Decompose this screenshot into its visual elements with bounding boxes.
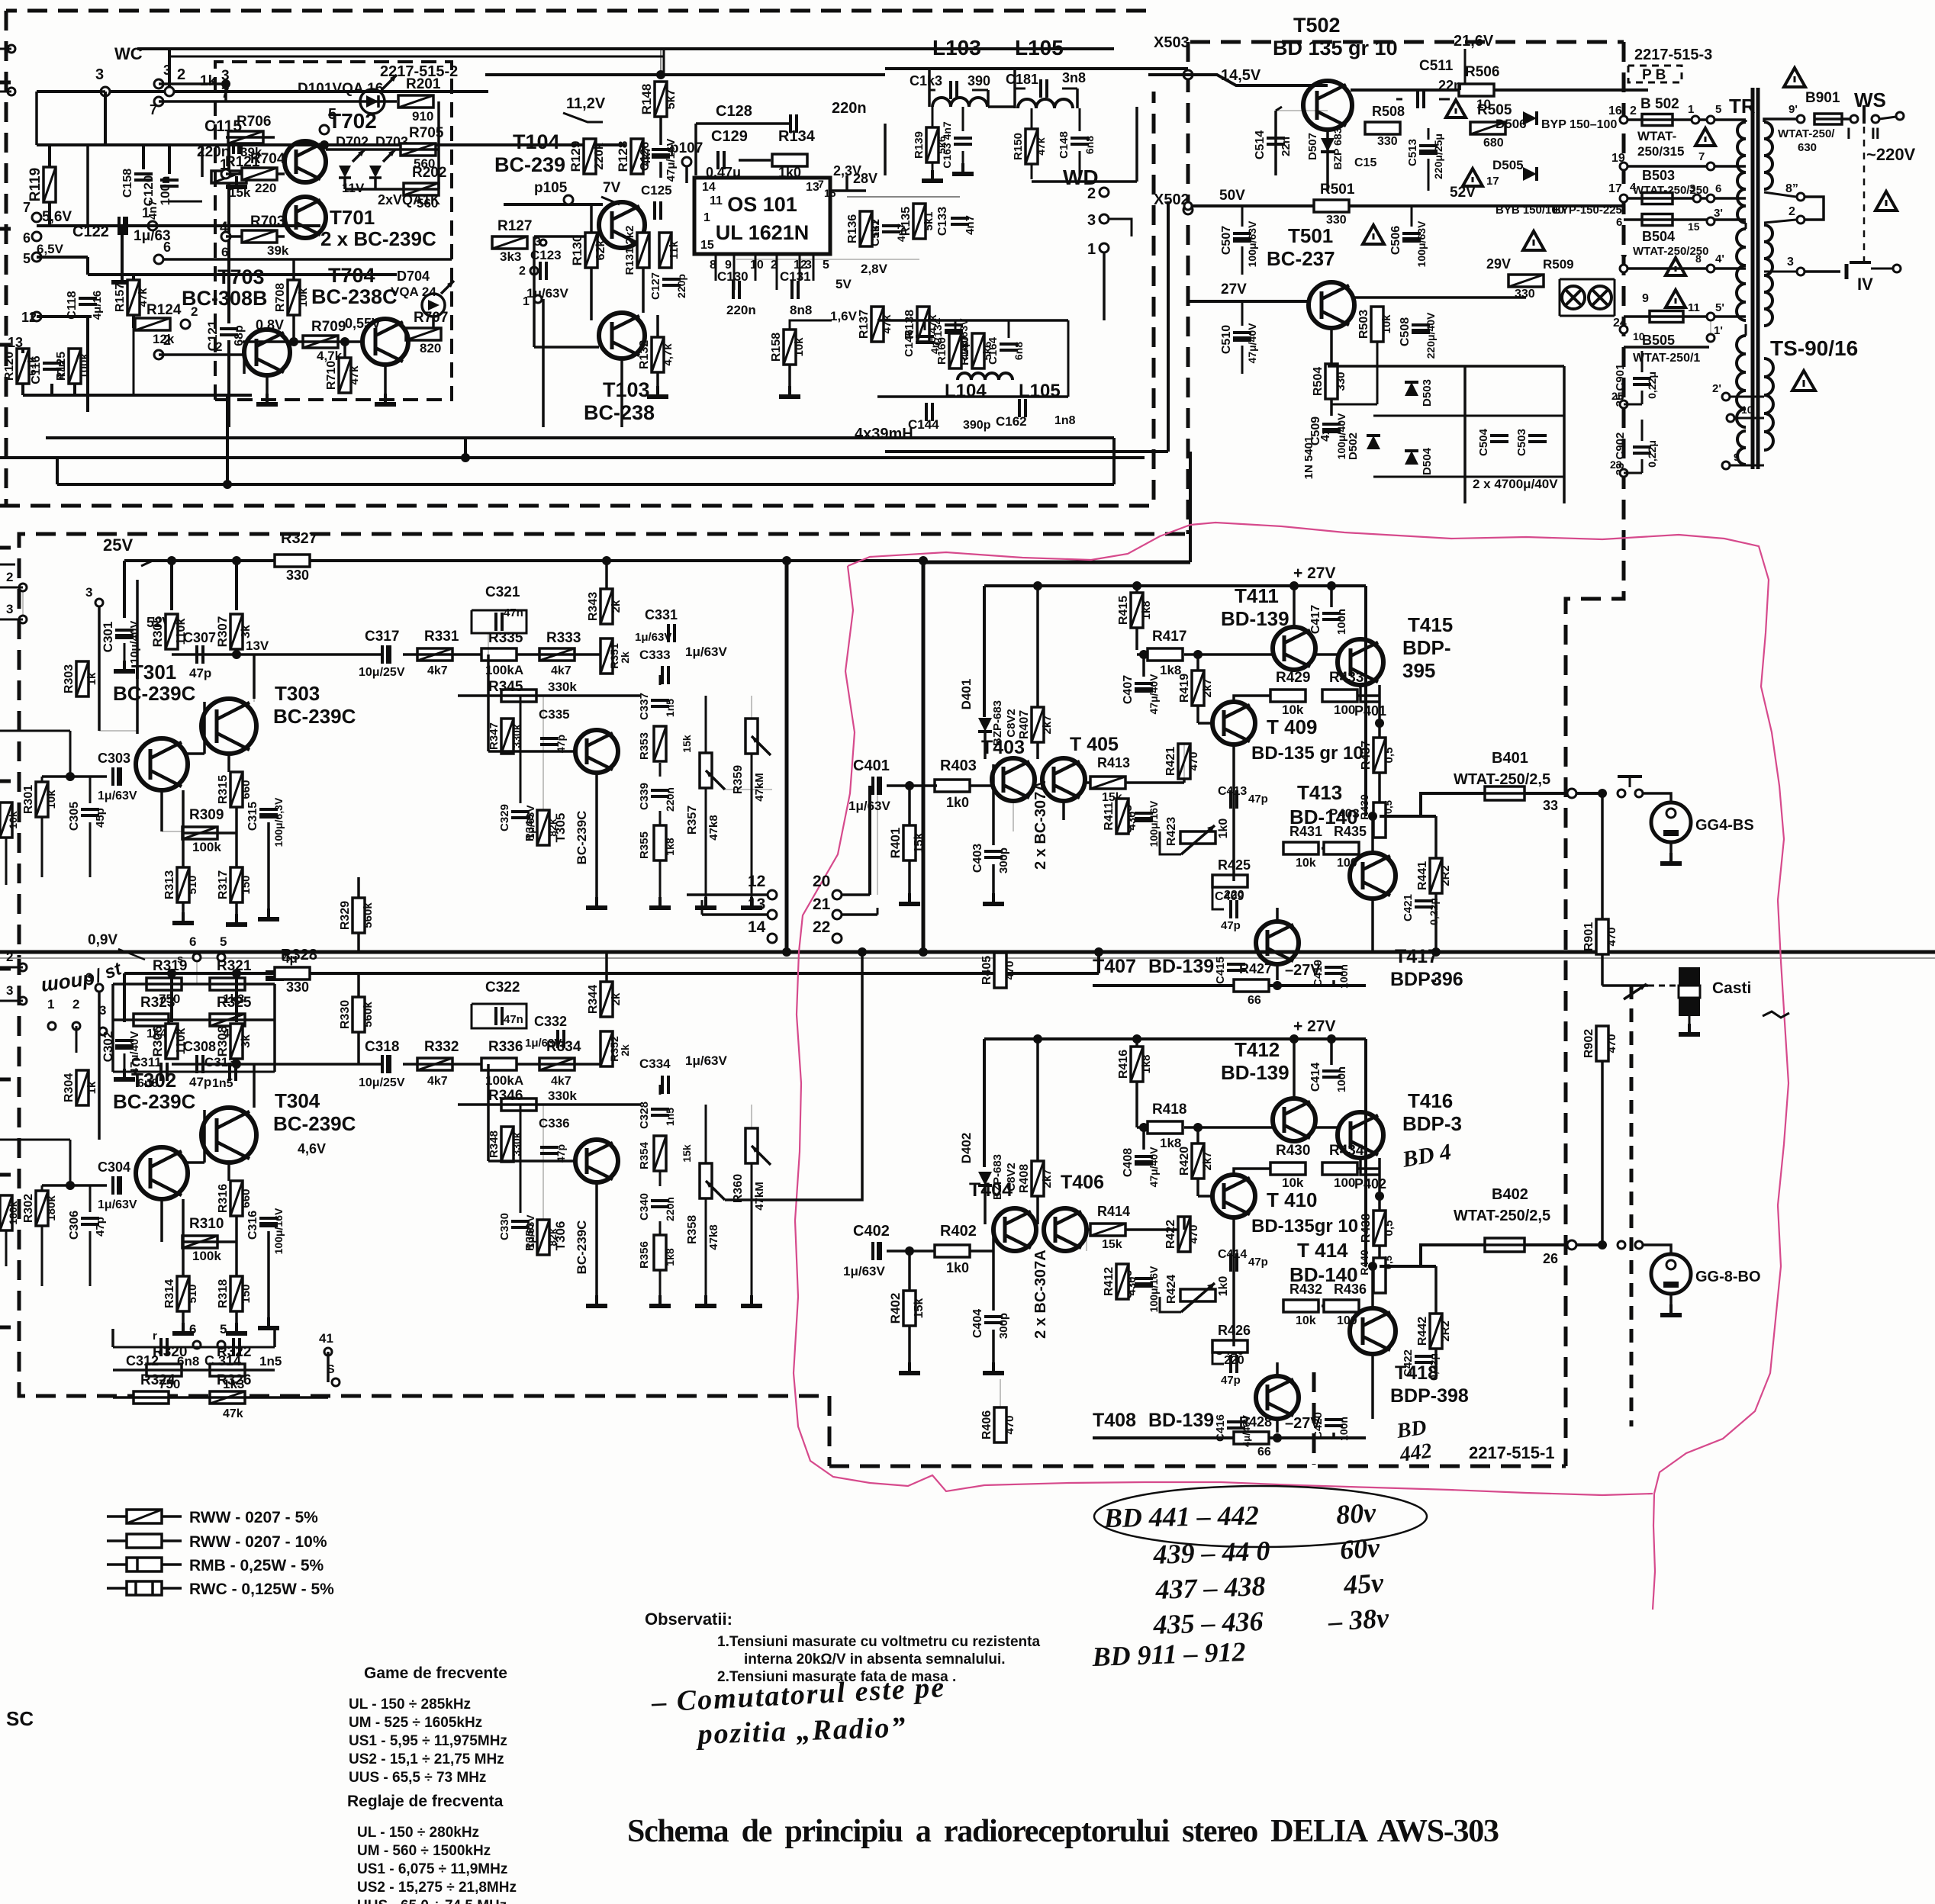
svg-text:T702: T702 [328, 109, 377, 133]
svg-text:100μ/63V: 100μ/63V [1246, 220, 1258, 267]
svg-text:R708: R708 [274, 283, 287, 312]
svg-text:10k: 10k [1296, 857, 1316, 870]
svg-text:1k8: 1k8 [1140, 1054, 1153, 1073]
svg-text:3: 3 [221, 68, 230, 84]
svg-text:C334: C334 [639, 1057, 671, 1071]
svg-text:10k: 10k [7, 811, 19, 829]
resistor R405 470 vertical [994, 953, 1006, 988]
capacitor C315 100u/6.3V [259, 809, 278, 819]
resistor R137 47k vertical [871, 307, 884, 342]
resistor R305 110k vertical [166, 614, 178, 649]
svg-text:R704: R704 [250, 151, 285, 167]
capacitor C311 6n8 [161, 1063, 167, 1081]
svg-text:R402: R402 [888, 1293, 903, 1324]
svg-text:C510: C510 [1220, 325, 1233, 354]
svg-text:8: 8 [1695, 252, 1702, 265]
resistor R349 82k vertical [537, 810, 549, 845]
node p107 [682, 157, 691, 166]
wire filter top rail [885, 67, 1188, 70]
svg-text:220n: 220n [832, 100, 867, 117]
svg-text:10μ/25V: 10μ/25V [359, 666, 405, 679]
wire bridge cluster [1328, 365, 1564, 368]
svg-text:US1 - 5,95 ÷ 11,975MHz: US1 - 5,95 ÷ 11,975MHz [349, 1733, 507, 1749]
svg-text:C504: C504 [1477, 428, 1490, 456]
svg-text:P402: P402 [1354, 1176, 1386, 1192]
svg-text:D702: D702 [336, 134, 369, 150]
svg-text:IV: IV [1857, 275, 1873, 294]
svg-text:T303: T303 [275, 682, 320, 705]
svg-text:9: 9 [1734, 451, 1740, 463]
svg-text:r: r [153, 1330, 157, 1343]
svg-text:390: 390 [967, 73, 990, 88]
svg-text:R120: R120 [3, 352, 16, 381]
capacitor C126 47u/16V [652, 150, 670, 159]
transistor T301 [136, 738, 188, 790]
svg-text:C332: C332 [534, 1014, 567, 1029]
svg-text:R327: R327 [281, 530, 317, 547]
resistor R509 330 [1508, 275, 1544, 287]
transistor T704 [362, 319, 408, 365]
svg-text:66: 66 [1257, 1446, 1271, 1459]
svg-text:45v: 45v [1342, 1567, 1386, 1600]
svg-text:R150: R150 [1012, 133, 1025, 160]
svg-text:Game de frecvente: Game de frecvente [364, 1664, 507, 1682]
svg-text:C414: C414 [1309, 1063, 1322, 1092]
svg-text:R421: R421 [1164, 747, 1177, 776]
svg-text:US1 - 6,075 ÷ 11,9MHz: US1 - 6,075 ÷ 11,9MHz [357, 1861, 507, 1877]
resistor R308 3k vertical [230, 1024, 243, 1059]
resistor R704 220 [242, 168, 277, 180]
transistor T703 [244, 330, 290, 375]
svg-text:14: 14 [748, 918, 766, 936]
resistor R316 660 vertical [230, 1181, 243, 1216]
frame dashed box power amp section 2217-515-1 [829, 1465, 1566, 1468]
capacitor C404 300p [984, 1317, 1003, 1323]
svg-text:D502: D502 [1347, 433, 1360, 460]
svg-text:5: 5 [23, 251, 31, 266]
wire lower filter mesh [877, 319, 1068, 322]
svg-text:52V: 52V [1450, 185, 1476, 201]
svg-text:220k: 220k [593, 143, 606, 170]
potentiometer R360 47kM [745, 1128, 758, 1163]
svg-text:2: 2 [1087, 185, 1096, 202]
svg-text:R125: R125 [55, 352, 68, 381]
svg-text:BD: BD [1395, 1416, 1428, 1443]
svg-text:R344: R344 [587, 985, 600, 1014]
potentiometer R358 47k8 [700, 1163, 712, 1198]
resistor R706 39k [228, 131, 263, 143]
svg-text:C146: C146 [903, 330, 916, 357]
svg-text:TS-90/16: TS-90/16 [1770, 336, 1858, 360]
transformer primary winding group 4 [1737, 431, 1746, 465]
svg-text:C414: C414 [1218, 1248, 1247, 1261]
svg-text:R401: R401 [888, 828, 903, 859]
svg-text:Observatii:: Observatii: [645, 1610, 732, 1629]
wire T302-T304 base link [187, 1161, 204, 1164]
svg-text:T413: T413 [1297, 781, 1342, 804]
svg-text:R201: R201 [406, 76, 441, 92]
transistor T413 [1350, 853, 1396, 899]
svg-text:220n: 220n [726, 303, 756, 317]
svg-text:330k: 330k [548, 680, 577, 694]
svg-text:7: 7 [818, 178, 824, 190]
svg-text:3k: 3k [240, 625, 253, 638]
svg-text:396: 396 [1431, 969, 1463, 990]
svg-text:R303: R303 [63, 664, 76, 693]
node pin 1 R704 [221, 169, 230, 178]
svg-text:1μ/63V: 1μ/63V [685, 1053, 727, 1068]
transistor T409 [1212, 702, 1255, 745]
resistor R307 3k vertical [230, 614, 243, 649]
svg-text:D505: D505 [1492, 158, 1524, 172]
svg-text:D401: D401 [959, 679, 974, 710]
warning triangle B504 [1666, 258, 1685, 275]
svg-text:R437: R437 [1360, 741, 1373, 770]
svg-text:C125: C125 [641, 183, 672, 198]
svg-text:2k7: 2k7 [1201, 678, 1214, 697]
transistor T104 [599, 202, 645, 248]
svg-text:C126: C126 [639, 142, 652, 171]
resistor R407 2k7 vertical [1032, 707, 1044, 742]
svg-text:5V: 5V [835, 277, 852, 291]
svg-text:R335: R335 [488, 630, 523, 646]
svg-text:R403: R403 [940, 757, 977, 774]
svg-text:2 x BC-307A: 2 x BC-307A [1032, 780, 1049, 870]
svg-text:560: 560 [417, 196, 438, 211]
svg-text:BC-238: BC-238 [584, 401, 655, 424]
warning triangle power 1 [1446, 100, 1466, 117]
svg-text:~220V: ~220V [1866, 145, 1916, 164]
svg-text:47p: 47p [189, 1075, 211, 1089]
capacitor C308 47p [197, 1055, 203, 1073]
svg-text:R415: R415 [1117, 596, 1130, 625]
connector pin 3 mid [95, 599, 103, 606]
node pin 4 R703 [221, 232, 230, 241]
transistor T103 [599, 313, 645, 359]
resistor R313 510 vertical [177, 867, 189, 902]
svg-text:C407: C407 [1122, 675, 1135, 704]
ground T703 T704 [266, 375, 269, 398]
node pin 13 [18, 349, 27, 358]
svg-text:R508: R508 [1372, 104, 1405, 119]
svg-text:47kM: 47kM [753, 1182, 766, 1211]
frame small dashed box PB [1628, 66, 1682, 82]
svg-text:435 – 436: 435 – 436 [1152, 1606, 1264, 1640]
capacitor C414 100n [1322, 1071, 1341, 1077]
svg-text:R902: R902 [1582, 1029, 1595, 1058]
capacitor C306 47p [81, 1218, 99, 1224]
handwritten oval around BD 441-442 row [1094, 1486, 1427, 1547]
svg-text:25: 25 [1611, 390, 1624, 402]
svg-text:C328: C328 [638, 1102, 651, 1129]
svg-text:630: 630 [1798, 141, 1817, 154]
resistor R343 2k vertical [600, 589, 613, 624]
svg-text:7: 7 [23, 200, 31, 215]
svg-text:R414: R414 [1097, 1204, 1130, 1219]
connector speaker output lower GG-8-BO [1651, 1254, 1691, 1294]
svg-text:R901: R901 [1582, 922, 1595, 951]
svg-text:R431: R431 [1289, 824, 1322, 839]
svg-text:4μ/40V: 4μ/40V [1241, 1415, 1252, 1447]
warning triangle 220V [1875, 191, 1897, 211]
capacitor C164 6n8 [1000, 344, 1018, 350]
svg-text:R127: R127 [497, 218, 532, 234]
resistor R201 edge fragment [0, 802, 12, 838]
svg-text:100kA: 100kA [485, 1073, 523, 1088]
svg-text:100μ/63V: 100μ/63V [1415, 220, 1428, 267]
wire box bottom rail [164, 258, 452, 261]
wire pin20 to C401 [868, 786, 871, 895]
resistor R335 100kA [481, 648, 517, 661]
svg-text:R442: R442 [1416, 1317, 1429, 1346]
svg-text:2k7: 2k7 [1041, 1169, 1054, 1188]
svg-text:R505: R505 [1477, 102, 1512, 118]
svg-text:2: 2 [6, 950, 13, 964]
resistor R127 3k3 [492, 236, 527, 249]
transistor T411 [1273, 627, 1315, 670]
svg-text:3: 3 [6, 983, 13, 998]
svg-text:12: 12 [748, 873, 765, 890]
svg-text:D704: D704 [397, 269, 430, 284]
svg-text:Schema de principiu a radiorec: Schema de principiu a radioreceptorului … [627, 1814, 1499, 1849]
svg-text:8”: 8” [1785, 182, 1798, 195]
svg-text:R314: R314 [163, 1279, 176, 1308]
wire decoder T301 emitter stub [160, 790, 163, 831]
svg-text:80v: 80v [1335, 1497, 1378, 1530]
resistor R441 2R2 vertical [1430, 858, 1442, 893]
lamp indicator 1 [1562, 286, 1585, 309]
svg-text:2: 2 [177, 66, 185, 83]
wire filter mesh [932, 107, 934, 127]
svg-text:C130: C130 [717, 269, 749, 284]
svg-text:660: 660 [240, 1188, 253, 1208]
svg-text:6: 6 [1616, 216, 1622, 229]
svg-text:39k: 39k [267, 243, 289, 258]
resistor R414 15k [1090, 1224, 1125, 1236]
svg-text:0,5: 0,5 [1383, 748, 1396, 764]
svg-text:C404: C404 [971, 1309, 984, 1338]
resistor R317 150 vertical [230, 867, 243, 902]
resistor R442 2R2 vertical [1430, 1314, 1442, 1349]
svg-text:47μ/40V: 47μ/40V [128, 1031, 141, 1075]
transistor T702 [285, 141, 326, 182]
resistor R333 4k7 [539, 648, 575, 661]
svg-text:6: 6 [163, 240, 171, 255]
svg-text:C318: C318 [365, 1039, 399, 1055]
svg-text:C301: C301 [101, 622, 115, 653]
svg-text:220n: 220n [664, 1197, 676, 1221]
svg-text:C308: C308 [183, 1039, 216, 1054]
wire IC bottom connections [715, 254, 717, 281]
transistor T501 [1309, 282, 1354, 328]
svg-text:X503: X503 [1154, 34, 1190, 51]
svg-text:C162: C162 [996, 414, 1027, 429]
resistor R332 4k7 [417, 1058, 452, 1070]
svg-text:R336: R336 [488, 1039, 523, 1055]
resistor R323 [134, 1014, 169, 1026]
resistor R132 4.7k vertical [652, 337, 664, 372]
svg-text:4k7: 4k7 [427, 664, 448, 677]
wire emitter links lower [182, 1199, 185, 1276]
resistor R121 15k [211, 171, 246, 183]
capacitor C337 1n5 [651, 700, 669, 706]
svg-text:R305: R305 [150, 616, 165, 648]
wire right of IC [845, 175, 848, 191]
svg-text:15k: 15k [913, 833, 926, 854]
svg-text:220: 220 [255, 181, 276, 195]
svg-text:2: 2 [1789, 205, 1795, 218]
resistor R422 470 vertical [1178, 1217, 1190, 1252]
svg-text:0,5: 0,5 [1383, 800, 1394, 814]
svg-text:3: 3 [163, 63, 171, 78]
capacitor C313 1n5 [230, 1063, 236, 1081]
svg-text:R349: R349 [523, 814, 536, 841]
svg-text:6: 6 [189, 1322, 196, 1336]
resistor R440 0.5 vertical [1373, 1258, 1386, 1293]
svg-text:15k: 15k [681, 735, 693, 753]
capacitor C144 390p [926, 403, 932, 421]
resistor R902 470 vertical [1596, 1026, 1608, 1061]
resistor R416 1k8 vertical [1131, 1047, 1143, 1082]
svg-text:470: 470 [1003, 1415, 1016, 1434]
wire secondary top to B901 [1764, 119, 1796, 122]
svg-text:1n5: 1n5 [259, 1354, 282, 1368]
wire T415 emitter to R437 [1360, 685, 1380, 702]
svg-text:47n: 47n [504, 606, 523, 619]
svg-text:17: 17 [1608, 182, 1622, 195]
svg-text:R503: R503 [1357, 310, 1370, 339]
svg-text:T412: T412 [1235, 1038, 1280, 1061]
wire R428 junction [1273, 1433, 1282, 1442]
wire T410 emitter column [1232, 1217, 1235, 1346]
wire 5,6V C122 [37, 224, 320, 227]
svg-text:9: 9 [1642, 292, 1649, 305]
svg-text:T103: T103 [603, 378, 650, 401]
svg-text:US2 - 15,275 ÷ 21,8MHz: US2 - 15,275 ÷ 21,8MHz [357, 1880, 517, 1896]
svg-text:1: 1 [523, 295, 530, 308]
svg-text:T406: T406 [1061, 1172, 1104, 1193]
svg-text:220: 220 [1224, 1354, 1244, 1367]
warning triangle lamps [1666, 290, 1685, 307]
svg-text:C307: C307 [183, 630, 216, 645]
svg-text:R332: R332 [424, 1039, 459, 1055]
capacitor C409 47p [1231, 900, 1237, 918]
svg-text:R148: R148 [639, 84, 654, 115]
svg-text:2R2: 2R2 [1439, 865, 1452, 886]
svg-text:BDP-398: BDP-398 [1390, 1385, 1469, 1407]
svg-text:R435: R435 [1334, 824, 1367, 839]
capacitor C406 100u/16V [1135, 1278, 1153, 1288]
wire T414 emitter down [1371, 1354, 1374, 1419]
svg-text:C401: C401 [853, 757, 890, 774]
capacitor C506 100u/63V [1402, 233, 1421, 243]
svg-text:6: 6 [189, 934, 196, 949]
capacitor C417 100n [1322, 613, 1341, 619]
wire primary taps [1745, 120, 1747, 122]
resistor R707 820 [406, 328, 441, 340]
svg-text:UM - 525 ÷ 1605kHz: UM - 525 ÷ 1605kHz [349, 1715, 482, 1731]
svg-text:3n8: 3n8 [1062, 70, 1086, 85]
dashed switch linkage [1863, 127, 1866, 262]
svg-text:470: 470 [1003, 960, 1016, 979]
svg-text:150: 150 [240, 1284, 253, 1303]
svg-text:560k: 560k [362, 902, 375, 928]
wire edge stub deco [5, 838, 8, 885]
svg-text:C503: C503 [1515, 429, 1528, 456]
svg-text:47p: 47p [1248, 793, 1268, 806]
svg-text:T418: T418 [1395, 1362, 1438, 1384]
svg-text:100k: 100k [78, 353, 91, 379]
resistor R328 330 [275, 967, 310, 979]
svg-text:BD-139: BD-139 [1148, 956, 1214, 977]
svg-text:2217-515-1: 2217-515-1 [1469, 1443, 1555, 1462]
svg-text:1μ/63V: 1μ/63V [98, 1198, 137, 1211]
wire T414 collector to output [1371, 1266, 1374, 1308]
svg-text:R436: R436 [1334, 1282, 1367, 1297]
svg-text:47kM: 47kM [753, 773, 766, 802]
svg-text:R358: R358 [686, 1215, 699, 1244]
svg-text:15: 15 [700, 239, 714, 252]
resistor R325 47k [210, 1014, 245, 1026]
svg-text:R306: R306 [150, 1026, 165, 1057]
wire R434 to T416 node [1358, 1167, 1380, 1170]
svg-text:1: 1 [703, 211, 710, 224]
svg-text:B401: B401 [1492, 750, 1528, 767]
svg-text:2': 2' [1712, 382, 1721, 395]
resistor R430 10k [1270, 1163, 1306, 1175]
svg-text:C8V2: C8V2 [1005, 709, 1018, 738]
svg-text:100k: 100k [192, 1249, 221, 1263]
svg-text:R423: R423 [1165, 817, 1178, 846]
diode D504 [1405, 451, 1418, 465]
svg-text:R417: R417 [1152, 629, 1186, 645]
wire R427 junction [1273, 981, 1282, 990]
svg-text:D402: D402 [959, 1133, 974, 1164]
resistor R429 10k [1270, 690, 1306, 702]
svg-text:6,5V: 6,5V [37, 242, 64, 256]
svg-text:C127: C127 [649, 272, 662, 300]
svg-text:BC-238C: BC-238C [311, 285, 398, 308]
svg-text:3: 3 [95, 66, 104, 83]
capacitor C130 220n [733, 281, 739, 299]
wire scan seam [0, 957, 1935, 959]
svg-text:Reglaje de frecventa: Reglaje de frecventa [347, 1793, 504, 1810]
svg-text:D506: D506 [1496, 117, 1527, 131]
svg-text:2 x BC-239C: 2 x BC-239C [320, 227, 436, 250]
svg-text:470: 470 [1187, 1224, 1200, 1243]
svg-text:C181: C181 [1006, 72, 1038, 87]
svg-text:22n: 22n [1438, 78, 1462, 93]
svg-text:R424: R424 [1165, 1275, 1178, 1304]
resistor R334 4k7 [539, 1058, 575, 1070]
transistor T302 [136, 1147, 188, 1199]
wire WS switch contact II [1872, 115, 1879, 123]
svg-text:R707: R707 [414, 310, 448, 326]
svg-text:3: 3 [1087, 212, 1096, 229]
resistor R330 560k vertical [353, 997, 365, 1032]
svg-text:BD-135 gr 10: BD-135 gr 10 [1251, 743, 1364, 764]
svg-text:R430: R430 [1276, 1143, 1310, 1159]
svg-text:3k3: 3k3 [500, 249, 521, 264]
warning triangle near D505 [1463, 169, 1483, 186]
svg-text:R422: R422 [1164, 1220, 1177, 1249]
svg-text:WTAT-250/: WTAT-250/ [1778, 127, 1835, 140]
wire stub bottom [21, 349, 24, 353]
svg-text:UL 1621N: UL 1621N [716, 221, 810, 244]
capacitor C127 220p [662, 279, 681, 285]
capacitor C316 100u/16V [259, 1218, 278, 1227]
svg-text:BC-239: BC-239 [494, 153, 565, 176]
